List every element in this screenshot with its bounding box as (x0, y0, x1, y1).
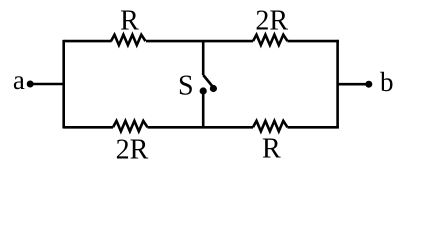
svg-text:a: a (13, 65, 25, 95)
wire right edge to b (338, 83, 369, 86)
terminal a dot (27, 81, 34, 88)
wire left edge vertical (62, 40, 65, 129)
resistor R2 zigzag top-right (2R) (253, 35, 288, 45)
wire a to left edge (30, 83, 65, 86)
wire middle vertical lower (switch to bottom edge) (202, 91, 205, 127)
wire bottom-middle segment (148, 126, 254, 129)
resistor R1 zigzag top-left (111, 35, 145, 45)
svg-text:R: R (120, 6, 139, 37)
resistor R3 zigzag bottom-left (2R) (113, 121, 147, 131)
switch S lever arm (203, 75, 213, 88)
terminal b dot (365, 81, 372, 88)
wire bottom-left segment (64, 126, 113, 129)
svg-text:2R: 2R (255, 6, 288, 37)
wire right edge vertical (336, 40, 339, 129)
resistor R4 zigzag bottom-right (R) (253, 121, 288, 131)
switch S lever contact dot (210, 85, 217, 92)
svg-text:2R: 2R (116, 134, 149, 164)
svg-text:b: b (380, 67, 394, 97)
wire top-middle segment (146, 40, 253, 43)
svg-text:S: S (178, 71, 194, 102)
wire middle vertical upper (top edge to switch) (202, 41, 205, 75)
wire top-right segment (288, 40, 339, 43)
wire bottom-right segment (288, 126, 339, 129)
svg-text:R: R (262, 133, 281, 164)
wire top-left segment (64, 40, 112, 43)
switch S fixed contact dot (200, 87, 207, 94)
